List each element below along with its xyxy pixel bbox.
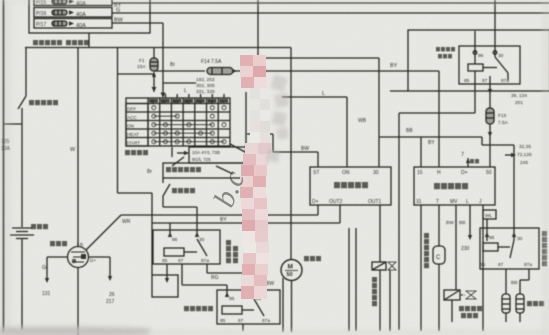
- wire stub to left border: [4, 123, 23, 125]
- fuse row P/17: [34, 19, 112, 29]
- start switch contact: [171, 147, 173, 157]
- fuse F P/17 symbol: [52, 21, 67, 26]
- wire BY from F14 to preheat controller H: [233, 70, 439, 72]
- wire W: [77, 48, 79, 248]
- main battery bus: [25, 47, 291, 49]
- fuse box (battery harness fuse box) outer: [29, 0, 150, 33]
- label AC switch: [172, 188, 195, 193]
- fuse F15 7.5A: [486, 108, 494, 124]
- label main power switch: [29, 100, 58, 105]
- fuse F P/16 symbol: [52, 10, 67, 15]
- fuse row P/15: [34, 0, 112, 6]
- bottom scan smudge: [0, 328, 150, 335]
- label start switch: [125, 150, 148, 155]
- watermark pink mosaic strip: [240, 55, 271, 299]
- label fuse box caption blobs: [33, 40, 89, 45]
- wire to main power switch: [25, 48, 27, 97]
- wire G from P/16: [112, 12, 549, 14]
- glow plug 1: [502, 294, 510, 313]
- wire step to fuse F1: [117, 48, 119, 194]
- wire aux 3: [389, 270, 391, 331]
- wire corner to relay column: [118, 192, 153, 194]
- IG relay frame: [408, 30, 549, 91]
- wire L to flameout controller ON: [282, 96, 347, 98]
- label glow relay vertical: [542, 231, 547, 266]
- cold start switch box: [163, 163, 246, 178]
- label cold start switch: [166, 167, 201, 172]
- fuse row P/16: [34, 8, 112, 18]
- preheat controller U2: [414, 167, 495, 205]
- wire aux 2: [355, 228, 357, 331]
- label battery: [31, 224, 48, 229]
- branch arrow 32 35: [505, 154, 514, 156]
- wire J down: [482, 205, 484, 331]
- arrow to ratings box: [177, 152, 188, 154]
- AC switch: [162, 178, 164, 183]
- battery: [12, 227, 32, 229]
- IG power relay K3: [459, 46, 520, 84]
- wire to start switch block: [245, 92, 247, 163]
- glow plug 2: [516, 294, 524, 313]
- label starter relay: [184, 306, 213, 311]
- alternator G1: [68, 247, 89, 268]
- flameout solenoid valve: [372, 262, 386, 270]
- wire T down with indicator: [438, 205, 440, 246]
- label preheat solenoid: [459, 306, 482, 318]
- left border wire: [3, 0, 5, 332]
- wire 85 down arrow: [166, 264, 168, 281]
- wire 87a RG to starter relay 30: [206, 264, 208, 273]
- start protection relay K1: [153, 230, 220, 264]
- cold start switch contact: [216, 166, 233, 174]
- wire AC switch to start protection relay: [163, 206, 197, 208]
- wire D+ to 26 217: [89, 256, 110, 258]
- scan blotches: [0, 0, 10, 335]
- label glow plugs: [527, 301, 544, 306]
- wire OUT1 down: [379, 205, 381, 262]
- preheat solenoid valve: [444, 290, 460, 300]
- glow plug relay K4: [480, 228, 539, 269]
- flameout controller U1: [310, 167, 391, 205]
- table corner diagonal: [230, 144, 247, 153]
- wire L to ignition switch: [163, 82, 196, 84]
- bus to preheat controller: [379, 136, 482, 138]
- preheat section frame: [474, 84, 476, 113]
- fuse box drop: [88, 33, 90, 48]
- wire Gr to ground 131: [47, 256, 67, 258]
- wire 31 down: [420, 205, 422, 331]
- wire 87 to F15: [489, 83, 491, 108]
- label glow indicator vertical: [424, 233, 429, 268]
- wire starter relay 87 down: [242, 324, 244, 331]
- box 10A ratings: [189, 147, 246, 163]
- wire to flameout controller 30: [257, 0, 259, 58]
- WL tag: [483, 210, 496, 219]
- wire drop to IG relay 30: [494, 0, 496, 46]
- glow indicator resistor C: [433, 246, 445, 264]
- wire BY OUT2: [152, 222, 340, 224]
- paper noise: [0, 0, 1, 1]
- fuse F1 15A: [153, 48, 155, 59]
- fuse F P/15 symbol: [52, 0, 67, 4]
- label alternator: [50, 241, 67, 246]
- table header pins: [149, 99, 228, 103]
- wire MV down to solenoid: [455, 205, 457, 290]
- wire BW from P/17: [112, 22, 163, 24]
- wire WR from alternator: [86, 215, 121, 250]
- glow plug wires: [505, 269, 507, 294]
- label start protection relay vertical: [226, 240, 238, 263]
- wire BW to flameout controller ST: [247, 133, 273, 135]
- starter motor M: [281, 260, 302, 281]
- ignition switch table: [126, 98, 230, 146]
- wire Br to F14: [154, 70, 205, 72]
- wire 87 to starter relay 86: [181, 264, 183, 285]
- connector box: [152, 275, 178, 297]
- main power switch: [18, 96, 26, 109]
- starter relay K2: [217, 290, 280, 324]
- wire BY from P/15: [112, 2, 549, 4]
- wire L down arrow 230: [469, 205, 471, 238]
- wire aux 1: [348, 228, 350, 331]
- label flameout solenoid vertical: [372, 277, 377, 306]
- label starter motor: [304, 256, 321, 261]
- wire starter motor feed: [290, 48, 292, 261]
- wire BW drop to ignition switch: [162, 23, 164, 94]
- table contacts: [152, 106, 226, 144]
